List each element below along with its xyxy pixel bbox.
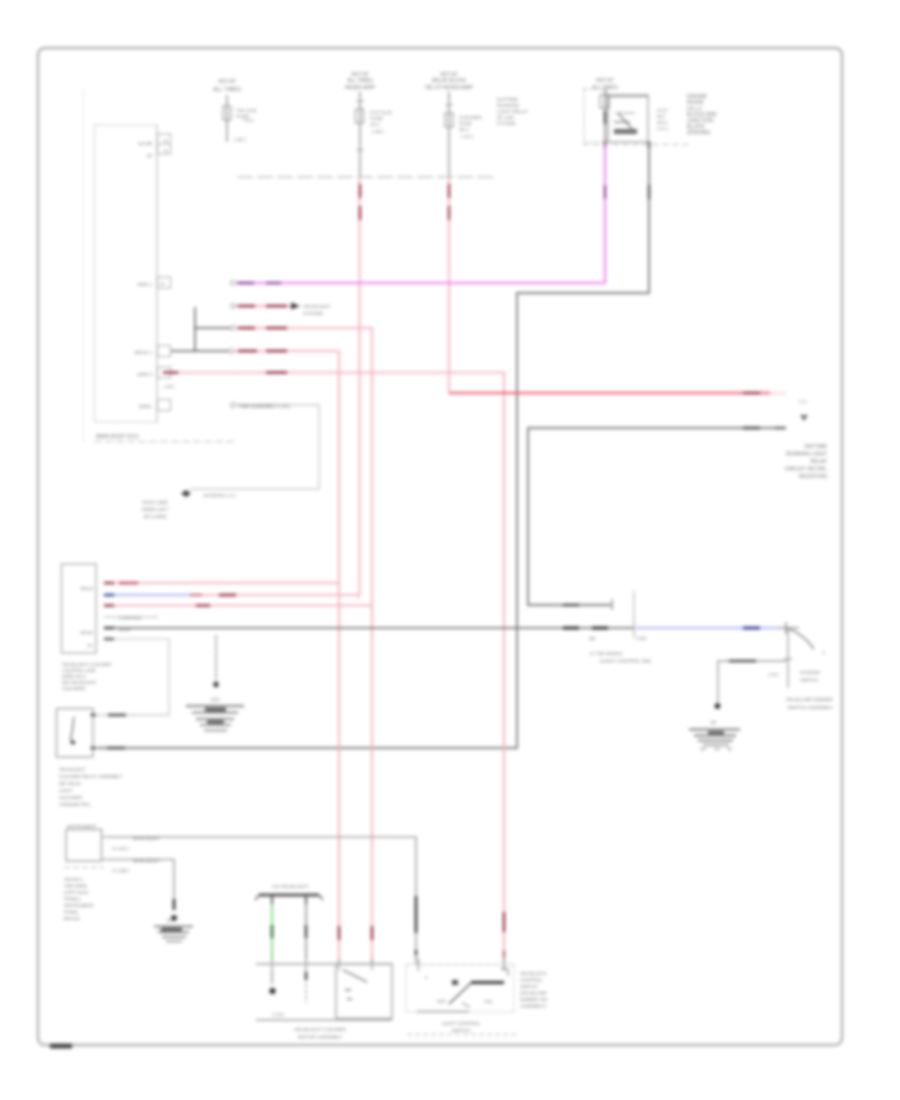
relay U1 box	[608, 95, 648, 142]
connector triangle mark	[800, 415, 808, 421]
wire F3 gray upper vertical	[448, 92, 450, 177]
text block right of relay U1	[687, 94, 717, 136]
module pin at y351	[158, 346, 171, 357]
svg-text:HEADLAMP DIMMER: HEADLAMP DIMMER	[786, 697, 834, 703]
svg-text:10 A: 10 A	[370, 122, 380, 128]
svg-text:4 ( 14B ): 4 ( 14B )	[112, 868, 129, 873]
svg-text:HEADLIGHT: HEADLIGHT	[303, 304, 331, 310]
svg-text:INSTRUMENT: INSTRUMENT	[67, 824, 97, 829]
svg-text:CIRCUIT (W/ DRL: CIRCUIT (W/ DRL	[785, 467, 827, 473]
module interior label top	[138, 141, 152, 159]
svg-text:HOT AT: HOT AT	[218, 79, 236, 85]
svg-text:MAIN BODY: MAIN BODY	[133, 836, 161, 842]
wire row6 stub to relay path	[104, 638, 169, 640]
fuse F3 symbol	[445, 113, 453, 127]
fuse F1 symbol	[223, 106, 231, 120]
svg-text:MALE: MALE	[80, 630, 93, 635]
wire F2 gray upper vertical	[359, 92, 361, 177]
dimmer switch pole vertical	[787, 628, 789, 688]
svg-text:TAIL (LH): TAIL (LH)	[236, 108, 257, 114]
svg-text:GRN 3: GRN 3	[137, 372, 152, 378]
wire row1 red y583 to vertical x339	[104, 582, 339, 584]
svg-text:BRACE: BRACE	[64, 916, 80, 921]
fuse F2 H-LP column label	[345, 72, 376, 91]
lamp right leg below connector dashed	[305, 970, 307, 981]
svg-text:RELAY BLOCK: RELAY BLOCK	[432, 78, 467, 84]
fuse F4 symbol	[600, 95, 609, 108]
svg-text:(HEADLAMP: (HEADLAMP	[520, 991, 547, 996]
module pin at y372	[158, 367, 171, 378]
module main body ECU box	[95, 125, 158, 422]
text block steering light control	[785, 444, 828, 480]
svg-text:RLY: RLY	[657, 114, 666, 119]
svg-text:1 ( B ): 1 ( B )	[272, 1012, 284, 1017]
switch S1 travel base line	[417, 1011, 469, 1013]
motor M1 headlight cleaner box	[336, 964, 392, 1019]
svg-text:FITTED): FITTED)	[497, 121, 516, 127]
svg-text:RUNNING: RUNNING	[497, 103, 520, 109]
fuse F2 symbol	[356, 109, 364, 123]
svg-text:BECK 1: BECK 1	[135, 350, 152, 356]
svg-text:( 16 ): ( 16 )	[768, 672, 779, 677]
svg-text:MALE: MALE	[80, 586, 93, 591]
module pin 2E	[158, 277, 171, 288]
svg-text:DD: DD	[589, 636, 595, 641]
dashed line under J1	[64, 867, 104, 869]
svg-text:(LIGHT CONTROL SW): (LIGHT CONTROL SW)	[600, 659, 651, 665]
svg-text:J/B NO.2: J/B NO.2	[64, 877, 83, 882]
svg-text:LT SW SIGNAL: LT SW SIGNAL	[590, 651, 623, 657]
node dot shield drain	[213, 682, 219, 688]
svg-text:ROOF SIDE: ROOF SIDE	[142, 500, 167, 505]
lamp left leg below connector and node dot	[271, 970, 273, 984]
svg-text:TIAR ASSEMBLY ( 14 ): TIAR ASSEMBLY ( 14 )	[238, 404, 290, 410]
svg-text:SWITCH: SWITCH	[452, 1028, 471, 1034]
svg-text:( 1C ): ( 1C )	[461, 134, 473, 140]
wire blue segment to dimmer switch	[636, 627, 778, 630]
node dot above ground G3	[171, 915, 177, 921]
svg-text:CLEANER): CLEANER)	[59, 795, 83, 800]
connector tick end of y605 run	[611, 599, 613, 610]
svg-text:INSTRUMENT: INSTRUMENT	[64, 903, 94, 908]
svg-text:CONTROL SUB-: CONTROL SUB-	[62, 668, 97, 673]
wire inside fuse box	[604, 89, 606, 143]
wire red y328 long: right then down to lamp	[231, 326, 236, 331]
switch S1 lever diagonal	[449, 983, 471, 1004]
svg-text:CLEANER: CLEANER	[459, 115, 482, 121]
wire red y351: right then down to lamp	[229, 349, 234, 354]
text flasher switch 2 lines	[800, 670, 821, 683]
relay K1 headlight cleaner relay box	[57, 709, 94, 758]
svg-text:( 1B ): ( 1B )	[372, 129, 384, 135]
svg-text:MAIN BODY ECU: MAIN BODY ECU	[96, 434, 139, 440]
svg-text:MAIN: MAIN	[119, 627, 130, 632]
wire black lead y328	[195, 327, 231, 329]
text headlight cleaner motor caption	[294, 1027, 346, 1041]
svg-text:RELAY: RELAY	[810, 459, 827, 465]
wire F1 vertical	[226, 95, 228, 142]
node dot above ground G2	[715, 703, 721, 709]
svg-text:PANEL): PANEL)	[64, 897, 81, 902]
dashed separator line top	[237, 176, 493, 178]
wire row4 control stub	[104, 616, 158, 618]
wire magenta color bands near module	[266, 282, 281, 284]
svg-text:HEADLIGHT: HEADLIGHT	[59, 767, 85, 772]
wire red y306 to headlight system arrow	[231, 304, 236, 309]
lamp H1 top bar	[259, 894, 319, 897]
shield drain dashed wire	[215, 636, 217, 681]
dimmer switch internal vertical x634	[633, 591, 635, 638]
svg-text:LIGHT: LIGHT	[59, 788, 73, 793]
svg-text:RESISTOR): RESISTOR)	[799, 474, 827, 480]
svg-text:NO.2: NO.2	[657, 120, 668, 125]
text block under J1	[64, 877, 94, 921]
wire label band on y748 run	[107, 747, 125, 750]
ground G2 symbol	[689, 720, 740, 749]
fuse F1 TAIL 7.5A column	[213, 79, 241, 93]
svg-text:FUSE: FUSE	[459, 121, 472, 127]
svg-text:CLEANER): CLEANER)	[62, 686, 86, 691]
wire row5 long switch signal line y628	[104, 627, 634, 629]
svg-text:(IF LHD: (IF LHD	[497, 115, 514, 121]
wire gray to body ground: right then down	[109, 860, 174, 906]
wire row2 blue+red y597 to fuse F2 vertical	[104, 594, 190, 596]
svg-text:GRN 1: GRN 1	[137, 282, 152, 288]
svg-text:CLEANER RELAY ASSEMBLY: CLEANER RELAY ASSEMBLY	[59, 774, 122, 779]
light control switch S1 box dashed top	[406, 964, 514, 966]
fuse F3 column label	[425, 72, 473, 91]
svg-text:RUNNING LIGHT: RUNNING LIGHT	[786, 452, 828, 458]
dashed line under module	[94, 441, 234, 443]
svg-text:(W/ HEAD-: (W/ HEAD-	[59, 781, 82, 786]
svg-text:SWITCH: SWITCH	[800, 678, 818, 683]
svg-text:DAYTIME: DAYTIME	[804, 444, 827, 450]
svg-text:HEADLIGHT CLEANER: HEADLIGHT CLEANER	[294, 1027, 346, 1033]
dashed line under relay block	[582, 144, 689, 146]
svg-text:( 1A ): ( 1A )	[657, 126, 668, 131]
svg-text:1A: 1A	[163, 138, 168, 143]
wire gray lamp right leg	[305, 904, 307, 959]
connector tick x634	[633, 622, 635, 634]
svg-text:16: 16	[163, 148, 168, 153]
svg-text:ALL TIMES: ALL TIMES	[213, 87, 241, 93]
wire magenta relay output	[253, 143, 605, 283]
wire black lead from pin y351	[171, 350, 229, 352]
wire F3 red vertical with color bands	[448, 177, 450, 393]
svg-text:T-DR: T-DR	[636, 636, 646, 641]
text block right of fuse F3	[497, 97, 529, 127]
svg-text:HOT AT: HOT AT	[596, 78, 614, 84]
svg-text:MAIN BODY: MAIN BODY	[133, 859, 161, 865]
svg-text:ROOM: ROOM	[687, 100, 703, 106]
text block under connector box	[62, 662, 112, 691]
svg-text:(IN CABIN): (IN CABIN)	[144, 514, 167, 519]
svg-text:4 ( 14A ): 4 ( 14A )	[112, 846, 129, 851]
pin entry ticks S1	[419, 958, 505, 971]
module pin at y405	[158, 400, 171, 411]
svg-text:ALL TIMES: ALL TIMES	[347, 78, 373, 84]
headlight cleaner connector box	[62, 564, 97, 653]
svg-text:LIGHT CONTROL: LIGHT CONTROL	[442, 1021, 481, 1027]
svg-text:WIRE NO.2: WIRE NO.2	[62, 674, 86, 679]
svg-text:HEADLIGHT: HEADLIGHT	[520, 971, 546, 976]
text LT SW signal 2 lines	[590, 651, 651, 665]
svg-text:CONTROL: CONTROL	[520, 978, 543, 983]
diamond arrow antenna node	[181, 490, 191, 497]
svg-text:( 1E ): ( 1E )	[164, 384, 175, 389]
svg-text:SWITCH: SWITCH	[520, 984, 538, 989]
svg-text:H-LP (LH): H-LP (LH)	[370, 110, 392, 116]
svg-text:(ENGINE): (ENGINE)	[687, 130, 711, 136]
svg-text:W10: W10	[211, 697, 220, 702]
relay K1 contact	[71, 717, 75, 742]
node circle magenta start	[231, 281, 236, 286]
svg-text:ANTENNA ( 2 ): ANTENNA ( 2 )	[203, 493, 236, 499]
page number mark	[50, 1044, 72, 1049]
svg-text:INNER LEFT: INNER LEFT	[142, 507, 169, 512]
junction block J1 box bottom left	[66, 830, 102, 862]
switch S1 contact bar	[471, 981, 504, 984]
svg-text:AA: AA	[87, 643, 94, 648]
svg-text:PANEL: PANEL	[64, 910, 79, 915]
wire gray steering switch feed y428	[528, 428, 786, 605]
connector tick x786	[785, 622, 787, 634]
svg-text:7.5 A: 7.5 A	[243, 118, 255, 124]
wire gray to light control switch: right then down	[109, 837, 416, 964]
roof side label 3 lines	[142, 500, 169, 519]
svg-text:LIGHT RELAY: LIGHT RELAY	[497, 109, 529, 115]
wire gray row6 elbow down to relay box pin	[97, 639, 169, 715]
svg-text:SWITCH ASSEMBLY: SWITCH ASSEMBLY	[788, 705, 834, 711]
relay U1 coil and contact	[618, 113, 632, 129]
wire red y372 from pin: right then down to light control switch	[171, 373, 504, 965]
svg-text:( A ): ( A )	[799, 399, 807, 404]
wire green lamp left leg	[271, 904, 273, 959]
motor M1 internals	[343, 970, 367, 982]
wire gray y405 TIAR assembly to antenna arrow	[231, 403, 236, 408]
black stub vertical node	[194, 307, 196, 351]
module pin connector top pair	[158, 134, 171, 144]
svg-text:(W/ HEADLIGHT: (W/ HEADLIGHT	[62, 680, 97, 685]
svg-text:FUSE: FUSE	[370, 116, 383, 122]
svg-text:CONTROL: CONTROL	[119, 616, 142, 621]
svg-text:MOTOR ASSEMBLY: MOTOR ASSEMBLY	[298, 1035, 343, 1041]
svg-text:BP: BP	[711, 720, 717, 725]
svg-text:DAYTIME: DAYTIME	[497, 97, 518, 103]
bottom line under lamp	[256, 1019, 392, 1021]
wire F2 red vertical with color bands	[359, 177, 361, 595]
svg-text:ASSEMBLY): ASSEMBLY)	[520, 1004, 546, 1009]
wire red daytime running arrow y393	[449, 392, 770, 394]
svg-text:TAIL: TAIL	[484, 999, 494, 1004]
svg-text:PASSING: PASSING	[800, 670, 821, 675]
fuse box dashed enclosure	[584, 89, 608, 142]
dimmer switch lever	[789, 629, 814, 649]
text headlamp dimmer switch assembly	[786, 697, 834, 711]
wire fuse to relay top	[607, 96, 648, 98]
svg-text:DIMMER SW: DIMMER SW	[520, 997, 548, 1002]
svg-text:16: 16	[147, 153, 153, 159]
pin stubs J1	[101, 837, 109, 860]
ground G1 shield ground symbol	[186, 706, 244, 731]
connector marks at relay exits	[604, 142, 607, 149]
wire ground run y661	[718, 661, 786, 702]
text right of S1	[520, 971, 548, 1009]
svg-text:AND WIRE: AND WIRE	[64, 884, 87, 889]
svg-text:( ENGINE RM ): ( ENGINE RM )	[59, 802, 91, 807]
svg-text:HE-LP HEADLAMP: HE-LP HEADLAMP	[425, 85, 473, 91]
svg-text:OFF: OFF	[437, 999, 446, 1004]
svg-text:SYSTEM: SYSTEM	[303, 311, 323, 317]
svg-text:EDRL: EDRL	[139, 404, 152, 410]
connector line across lamp legs	[256, 963, 392, 965]
ground G3 symbol	[154, 918, 193, 942]
svg-text:30 A: 30 A	[459, 127, 469, 133]
left dotted boundary line	[83, 90, 85, 441]
wire gray relay to left relay box: down, left, down, left	[97, 143, 649, 748]
arrow to headlight system	[291, 303, 300, 310]
svg-text:A22 HEADLIGHT: A22 HEADLIGHT	[271, 884, 308, 890]
text block under relay K1	[59, 767, 122, 807]
caption light control switch	[442, 1021, 481, 1034]
svg-text:HEADLAMP: HEADLAMP	[345, 85, 376, 91]
relay block HOT label	[592, 78, 618, 91]
wire row3 red y611 to vertical x372	[104, 605, 372, 607]
relay U1 right pin labels	[657, 108, 668, 131]
svg-text:( 1E ): ( 1E )	[234, 137, 246, 143]
svg-text:ILLUM: ILLUM	[138, 141, 152, 147]
svg-text:H-LP: H-LP	[657, 108, 667, 113]
dashed line under S1	[407, 1034, 517, 1036]
svg-text:IE: IE	[167, 918, 171, 923]
svg-text:2E: 2E	[160, 281, 165, 286]
svg-text:(LEFT KICK: (LEFT KICK	[64, 890, 90, 895]
svg-text:HEADLIGHT CLEANER: HEADLIGHT CLEANER	[62, 662, 112, 667]
